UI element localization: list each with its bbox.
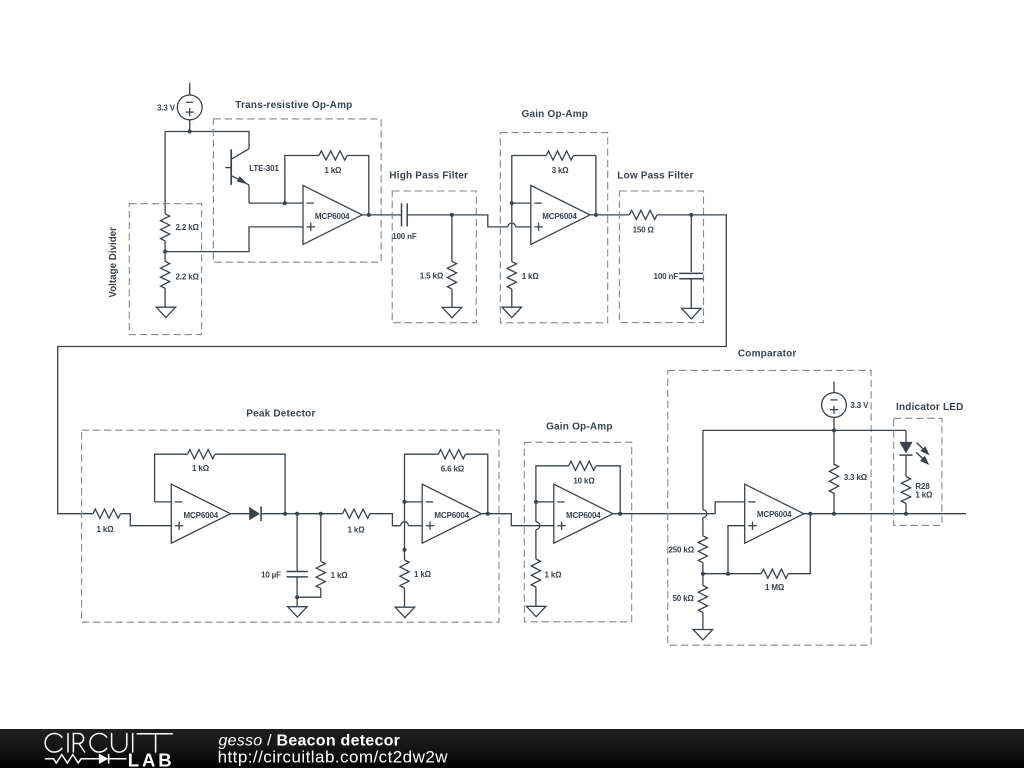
wire C2 to ground: [690, 279, 692, 309]
ground gain2: [526, 606, 546, 616]
resistor R10 1 k&#937;: [316, 561, 348, 588]
wire hop over U4 divider wire: [401, 522, 409, 526]
node diode feedback junction: [283, 512, 287, 516]
svg-text:150 Ω: 150 Ω: [633, 225, 655, 234]
svg-text:10 µF: 10 µF: [261, 570, 281, 579]
svg-text:1 kΩ: 1 kΩ: [522, 272, 540, 281]
ground HPF: [442, 307, 462, 317]
svg-text:100 nF: 100 nF: [654, 272, 679, 281]
svg-text:1 MΩ: 1 MΩ: [765, 583, 785, 592]
svg-text:LTE-301: LTE-301: [249, 164, 279, 173]
svg-text:50 kΩ: 50 kΩ: [672, 594, 694, 603]
svg-text:250 kΩ: 250 kΩ: [668, 545, 694, 554]
resistor R11 1 k&#937; series: [321, 509, 370, 534]
node U4 minus input: [403, 500, 407, 504]
ground divider: [156, 307, 176, 317]
LED D2: [899, 442, 912, 477]
dashed box High Pass Filter: [392, 191, 476, 323]
node comparator threshold: [701, 572, 705, 576]
op-amp U1 MCP6004: [303, 185, 362, 244]
svg-text:2.2 kΩ: 2.2 kΩ: [176, 272, 200, 281]
svg-text:MCP6004: MCP6004: [542, 212, 577, 221]
dashed box Gain Op-Amp 1: [500, 133, 607, 323]
wire threshold to U6 plus: [703, 526, 745, 574]
node R10 junction: [319, 512, 323, 516]
wire hop divider over main wire: [703, 510, 707, 518]
CircuitLab logo LAB text: [128, 750, 175, 768]
resistor R5 3 k&#937; feedback: [546, 151, 573, 175]
wire U4 output to Gain2: [481, 514, 553, 526]
resistor R6 1 k&#937;: [507, 262, 539, 289]
node C3 ground junction: [295, 595, 299, 599]
resistor R12 6.6 k&#937; feedback: [438, 450, 465, 474]
ground LPF: [682, 308, 702, 318]
capacitor C2 100 nF: [654, 272, 704, 281]
resistor R4 1.5 k&#937;: [420, 261, 457, 289]
wire node to R4: [451, 215, 453, 261]
dashed box Peak Detector: [82, 430, 499, 622]
wire U5 output to comparator: [613, 513, 699, 515]
wire R10 to ground node: [297, 588, 321, 597]
wire HPF to U2 plus input: [452, 215, 531, 227]
svg-text:1 kΩ: 1 kΩ: [324, 166, 342, 175]
svg-text:Trans-resistive Op-Amp: Trans-resistive Op-Amp: [235, 100, 352, 111]
wire node to R18: [728, 573, 761, 575]
resistor R7 150 &#937;: [629, 210, 657, 234]
voltage source V2 3.3 V: [822, 382, 870, 431]
wire R10 down: [320, 514, 322, 562]
voltage source V1 3.3 V: [157, 83, 202, 132]
wire R1 to node: [164, 241, 166, 252]
wire rail to LED: [905, 430, 907, 442]
label Low Pass Filter: [617, 170, 693, 181]
footer url text: [218, 747, 449, 766]
wire R3 to U1 output: [347, 156, 369, 215]
label Comparator: [738, 349, 797, 360]
wire node to C3: [296, 514, 298, 571]
svg-text:1 kΩ: 1 kΩ: [192, 464, 210, 473]
op-amp U2 MCP6004: [531, 185, 590, 244]
node U2 output: [594, 213, 598, 217]
op-amp U6 MCP6004: [745, 484, 804, 543]
svg-text:Voltage Divider: Voltage Divider: [108, 227, 119, 298]
svg-text:10 kΩ: 10 kΩ: [573, 476, 595, 485]
wire R11 to U4 plus input: [370, 514, 422, 526]
wire diode node to cap node: [285, 513, 297, 515]
wire R13 to ground: [404, 588, 406, 607]
feedback wire U1: [285, 156, 319, 204]
node U5 output: [618, 512, 622, 516]
wire R15 to ground: [535, 587, 537, 606]
node HPF output: [450, 213, 454, 217]
wire U1 output to C1: [362, 214, 401, 216]
svg-text:1 kΩ: 1 kΩ: [915, 491, 933, 500]
dashed box Comparator: [668, 370, 871, 645]
svg-text:High Pass Filter: High Pass Filter: [389, 170, 468, 181]
resistor R17 50 k&#937;: [672, 574, 707, 613]
wire hop over U2 divider wire: [508, 223, 516, 227]
node R19 output junction: [832, 512, 836, 516]
wire R9 to diode node: [215, 454, 285, 514]
wire R5 to U2 output: [573, 156, 596, 215]
resistor R18 1 M&#937; feedback: [761, 569, 788, 592]
svg-text:1 kΩ: 1 kΩ: [545, 570, 563, 579]
resistor R2 2.2 k&#937;: [161, 252, 200, 289]
svg-text:MCP6004: MCP6004: [434, 511, 469, 520]
label Gain Op-Amp 2: [546, 421, 613, 432]
feedback wire U2: [512, 156, 546, 204]
ground gain1: [502, 307, 522, 317]
node U5 minus input: [534, 500, 538, 504]
resistor R19 3.3 k&#937; pull-up: [829, 430, 867, 513]
svg-text:MCP6004: MCP6004: [566, 511, 601, 520]
wire C1 to node: [407, 214, 452, 216]
node threshold plus junction: [726, 572, 730, 576]
wire C3 to ground node: [296, 577, 298, 597]
svg-text:2.2 kΩ: 2.2 kΩ: [176, 223, 200, 232]
svg-text:3.3 V: 3.3 V: [157, 103, 176, 112]
wire divider vertical: [702, 430, 704, 535]
resistor R8 1 k&#937; input: [93, 509, 121, 534]
wire U3 output to diode: [231, 513, 250, 515]
wire V1 to phototransistor collector: [190, 132, 249, 149]
CircuitLab logo CIRCUIT letters: [45, 733, 172, 752]
wire U2 output to R7: [590, 214, 630, 216]
wire comparator input to U6 minus: [699, 502, 745, 514]
wire R8 to U3 plus input: [121, 514, 172, 526]
label Voltage Divider: [108, 227, 119, 298]
node LPF output: [689, 213, 693, 217]
wire R4 to ground: [451, 289, 453, 307]
wire node to C2: [690, 215, 692, 272]
op-amp U3 MCP6004: [171, 484, 230, 543]
node U4 divider mid: [403, 548, 407, 552]
node V1 output: [188, 130, 192, 134]
dashed box Low Pass Filter: [619, 191, 703, 323]
resistor R28 1 k&#937;: [901, 477, 933, 514]
wire U4 minus to R13: [404, 502, 406, 560]
feedback wire U4: [405, 454, 439, 502]
wire U2 minus input: [512, 202, 531, 204]
node U6 output: [808, 512, 812, 516]
svg-text:http://circuitlab.com/ct2dw2w: http://circuitlab.com/ct2dw2w: [218, 747, 449, 766]
wire U2 minus to R6: [511, 203, 513, 262]
svg-text:Comparator: Comparator: [738, 349, 797, 360]
wire R2 to ground: [164, 288, 166, 307]
resistor R9 1 k&#937; feedback: [188, 450, 216, 473]
feedback wire U5: [536, 466, 569, 502]
svg-text:MCP6004: MCP6004: [184, 511, 219, 520]
phototransistor Q1 LTE-301: [225, 149, 279, 203]
svg-text:MCP6004: MCP6004: [315, 212, 350, 221]
feedback wire U3: [155, 454, 188, 502]
dashed box Gain Op-Amp 2: [524, 442, 631, 622]
rail 3.3V comparator: [703, 429, 906, 431]
svg-text:6.6 kΩ: 6.6 kΩ: [441, 465, 465, 474]
svg-text:Gain Op-Amp: Gain Op-Amp: [521, 109, 588, 120]
resistor R3 1 k&#937; feedback: [319, 151, 347, 175]
resistor R1 2.2 k&#937;: [161, 214, 200, 241]
resistor R14 10 k&#937; feedback: [569, 461, 596, 485]
svg-text:Gain Op-Amp: Gain Op-Amp: [546, 421, 613, 432]
svg-text:1 kΩ: 1 kΩ: [414, 570, 432, 579]
wire R17 to ground: [702, 613, 704, 630]
node cap junction: [295, 512, 299, 516]
wire R12 to U4 output: [466, 454, 488, 514]
svg-text:100 nF: 100 nF: [392, 232, 417, 241]
node R28 output junction: [904, 512, 908, 516]
resistor R13 1 k&#937;: [400, 560, 432, 588]
label Trans-resistive Op-Amp: [235, 100, 352, 111]
ground U4: [395, 607, 415, 617]
ground comparator: [693, 630, 713, 640]
diode D1: [249, 506, 285, 521]
node U2 minus input: [510, 201, 514, 205]
svg-text:MCP6004: MCP6004: [757, 510, 792, 519]
op-amp U5 MCP6004: [554, 484, 613, 543]
label Peak Detector: [246, 409, 315, 420]
op-amp U4 MCP6004: [422, 484, 481, 543]
svg-text:3 kΩ: 3 kΩ: [552, 166, 570, 175]
node rail V2 junction: [832, 428, 836, 432]
svg-text:1 kΩ: 1 kΩ: [331, 571, 349, 580]
dashed box Indicator LED: [894, 418, 942, 525]
wire hop U5 vertical over plus wire: [536, 522, 540, 530]
ground peak detector: [288, 607, 308, 617]
footer title text: [219, 732, 401, 749]
wire U5 minus input: [536, 501, 554, 503]
node U4 output: [486, 512, 490, 516]
wire LPF output to Peak Detector input: [58, 215, 727, 514]
wire U3 minus input: [155, 501, 172, 503]
node U1 minus input: [283, 201, 287, 205]
svg-text:3.3 kΩ: 3.3 kΩ: [844, 473, 868, 482]
wire U4 minus input: [405, 501, 423, 503]
wire R16 to node: [702, 563, 704, 574]
wire emitter to U1 minus input: [249, 202, 303, 204]
dashed box Voltage Divider: [129, 204, 201, 335]
node divider midpoint: [163, 250, 167, 254]
wire R7 to node: [657, 214, 691, 216]
label High Pass Filter: [389, 170, 468, 181]
capacitor C1 100 nF: [392, 203, 417, 241]
footer bar: [0, 729, 1024, 768]
wire R18 to U6 output: [788, 514, 810, 574]
LED arrows: [916, 443, 928, 464]
label Gain Op-Amp 1: [521, 109, 588, 120]
svg-text:1 kΩ: 1 kΩ: [348, 525, 366, 534]
svg-text:Peak Detector: Peak Detector: [246, 409, 315, 420]
wire V1 to divider: [165, 132, 190, 214]
wire R6 to ground: [511, 289, 513, 307]
svg-text:Indicator LED: Indicator LED: [896, 402, 964, 413]
capacitor C3 10 &#181;F: [261, 570, 308, 579]
wire ground stub peak: [296, 597, 298, 607]
resistor R15 1 k&#937;: [531, 559, 562, 587]
wire U6 output to LED section: [804, 513, 966, 515]
svg-text:LAB: LAB: [128, 750, 175, 768]
label Indicator LED: [896, 402, 964, 413]
CircuitLab logo resistor-diode squiggle: [45, 754, 127, 764]
svg-text:3.3 V: 3.3 V: [850, 401, 869, 410]
svg-text:Low Pass Filter: Low Pass Filter: [617, 170, 693, 181]
dashed box Trans-resistive Op-Amp: [213, 119, 381, 262]
node U1 output: [367, 213, 371, 217]
svg-text:1.5 kΩ: 1.5 kΩ: [420, 272, 444, 281]
wire cap node to R10 node: [297, 513, 321, 515]
resistor R16 250 k&#937;: [668, 536, 707, 563]
wire R14 to U5 output: [596, 466, 620, 514]
wire divider midpoint to op-amp U1 plus input: [165, 227, 303, 252]
svg-text:1 kΩ: 1 kΩ: [97, 525, 115, 534]
wire U5 minus to R15: [535, 502, 537, 559]
